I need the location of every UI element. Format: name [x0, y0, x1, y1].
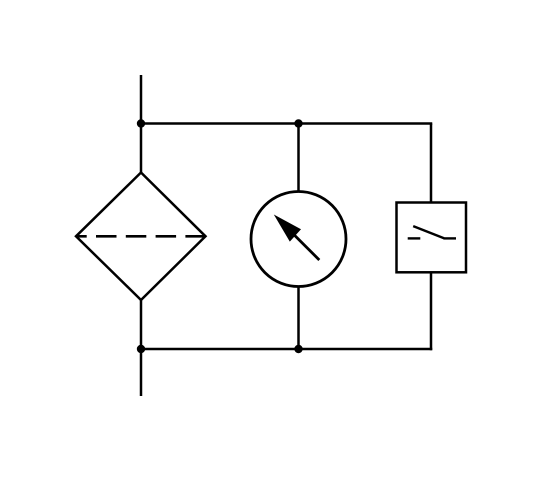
wire: switch bottom lead [430, 271, 433, 350]
wire: bottom horizontal bus [140, 348, 433, 351]
node: top-left junction [137, 119, 145, 127]
wire: bottom outlet stub [140, 349, 143, 396]
pressure switch S1 right contact [444, 237, 457, 239]
wire: top inlet stub [140, 75, 143, 124]
wire: top horizontal bus [140, 122, 433, 125]
pressure switch S1 left contact [408, 237, 421, 239]
wire: filter bottom lead [140, 300, 143, 350]
gauge G1 needle arrowhead [274, 215, 301, 242]
filter F1 element (dashed line) [76, 235, 206, 238]
node: bottom-left junction [137, 345, 145, 353]
wire: gauge bottom lead [297, 283, 300, 349]
wire: filter top lead [140, 124, 143, 174]
filter F1 (diamond outline) [76, 173, 206, 301]
pressure switch S1 (box) [397, 203, 467, 273]
pressure switch S1 blade [413, 226, 444, 238]
node: bottom-middle junction [294, 345, 302, 353]
gauge G1 (circle body) [251, 192, 346, 287]
wire: gauge top lead [297, 124, 300, 196]
node: top-middle junction [294, 119, 302, 127]
gauge G1 needle shaft [292, 232, 320, 260]
wire: switch top lead [430, 124, 433, 205]
